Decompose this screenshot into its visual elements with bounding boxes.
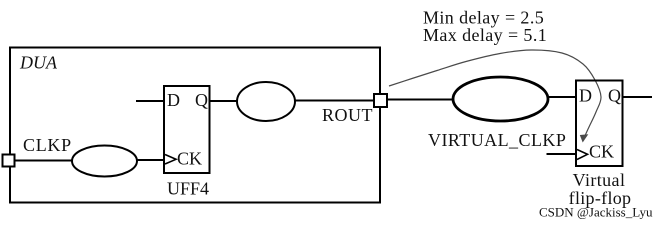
svg-text:Q: Q — [608, 86, 621, 106]
label VIRTUAL_CLKP — [428, 130, 566, 150]
wire external cloud to virtual flip-flop D — [548, 96, 576, 98]
UFF4 pin Q label — [195, 90, 208, 110]
wire ROUT to external cloud — [387, 99, 454, 101]
label ROUT — [322, 105, 373, 125]
watermark CSDN — [539, 205, 653, 220]
virtual FF pin Q label — [608, 86, 621, 106]
UFF4 pin D label — [167, 90, 180, 110]
wire virtual FF Q output — [623, 96, 653, 98]
wire clock cloud to UFF4 CK — [137, 159, 164, 161]
svg-text:ROUT: ROUT — [322, 105, 373, 125]
svg-text:CK: CK — [177, 149, 202, 169]
svg-text:CLKP: CLKP — [23, 135, 72, 155]
label DUA — [19, 53, 58, 73]
wire VIRTUAL_CLKP to virtual FF CK — [547, 153, 578, 155]
wire UFF4 Q to data cloud — [210, 100, 239, 102]
virtual FF pin D label — [579, 86, 592, 106]
svg-text:Virtual: Virtual — [573, 170, 626, 190]
svg-text:CSDN @Jackiss_Lyu: CSDN @Jackiss_Lyu — [539, 205, 653, 220]
annotation text Min/Max delay — [423, 8, 547, 46]
port ROUT (output square) — [374, 94, 387, 107]
wire CLKP port to clock cloud — [15, 160, 74, 162]
virtual FF pin CK label — [589, 142, 614, 162]
net delay cloud on CLKP — [72, 146, 137, 177]
label Virtual flip-flop — [569, 170, 632, 208]
svg-text:VIRTUAL_CLKP: VIRTUAL_CLKP — [428, 130, 566, 150]
svg-text:D: D — [579, 86, 592, 106]
svg-text:Max delay = 5.1: Max delay = 5.1 — [423, 25, 547, 45]
UFF4 pin CK label — [177, 149, 202, 169]
virtual flip-flop body — [576, 81, 623, 167]
net delay cloud external (set_min/max_delay path) — [453, 77, 548, 121]
label CLKP — [23, 135, 72, 155]
svg-text:D: D — [167, 90, 180, 110]
wire stub into UFF4 D — [136, 100, 164, 102]
wire data cloud to ROUT port — [295, 100, 374, 102]
port CLKP (input square) — [3, 155, 15, 167]
UFF4 clock triangle — [165, 155, 176, 165]
virtual FF clock triangle — [577, 150, 588, 160]
flip-flop UFF4 body — [164, 86, 210, 173]
svg-text:CK: CK — [589, 142, 614, 162]
svg-text:UFF4: UFF4 — [167, 179, 209, 199]
label UFF4 — [167, 179, 209, 199]
svg-text:Q: Q — [195, 90, 208, 110]
svg-text:DUA: DUA — [19, 53, 58, 73]
annotation curved arrow from ROUT to virtual CK — [389, 50, 601, 143]
block DUA boundary — [10, 48, 380, 203]
net delay cloud on UFF4/Q — [237, 82, 295, 121]
